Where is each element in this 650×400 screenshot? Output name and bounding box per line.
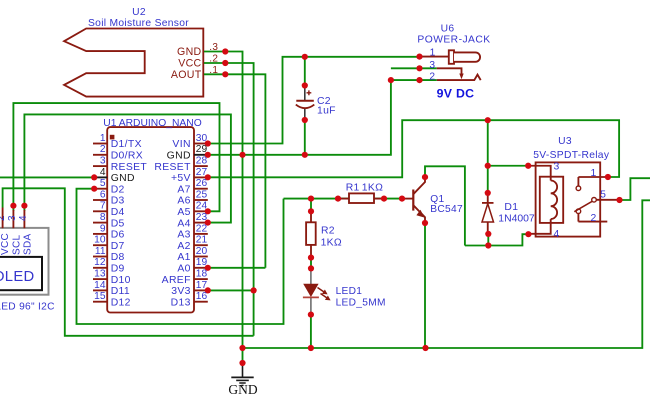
svg-text:U1 ARDUINO_NANO: U1 ARDUINO_NANO bbox=[103, 118, 201, 129]
svg-text:A0: A0 bbox=[177, 264, 190, 275]
svg-text:VCC: VCC bbox=[0, 233, 11, 255]
svg-text:5: 5 bbox=[100, 178, 106, 189]
svg-text:25: 25 bbox=[196, 189, 208, 200]
svg-text:R2: R2 bbox=[321, 226, 335, 237]
svg-text:2: 2 bbox=[429, 72, 435, 83]
svg-text:GND: GND bbox=[167, 151, 191, 162]
svg-text:POWER-JACK: POWER-JACK bbox=[417, 35, 490, 46]
svg-text:1uF: 1uF bbox=[317, 106, 336, 117]
svg-text:29: 29 bbox=[196, 144, 208, 155]
svg-text:1: 1 bbox=[100, 133, 106, 144]
svg-text:GND: GND bbox=[111, 173, 135, 184]
svg-text:U3: U3 bbox=[558, 136, 572, 147]
svg-text:D2: D2 bbox=[111, 184, 125, 195]
svg-text:20: 20 bbox=[196, 246, 208, 257]
svg-text:24: 24 bbox=[196, 201, 208, 212]
svg-text:VCC: VCC bbox=[178, 58, 201, 70]
svg-text:9: 9 bbox=[100, 223, 106, 234]
svg-text:3: 3 bbox=[553, 162, 559, 173]
svg-text:VIN: VIN bbox=[172, 139, 190, 150]
svg-text:RESET: RESET bbox=[111, 162, 148, 173]
svg-text:15: 15 bbox=[94, 291, 106, 302]
svg-text:+5V: +5V bbox=[171, 173, 191, 184]
svg-text:13: 13 bbox=[94, 269, 106, 280]
svg-text:2: 2 bbox=[0, 215, 7, 221]
svg-text:A7: A7 bbox=[177, 184, 190, 195]
svg-text:9V DC: 9V DC bbox=[437, 86, 475, 100]
svg-text:30: 30 bbox=[196, 133, 208, 144]
svg-text:2: 2 bbox=[590, 213, 596, 224]
svg-text:6: 6 bbox=[100, 189, 106, 200]
svg-text:1KΩ: 1KΩ bbox=[321, 237, 342, 248]
svg-text:16: 16 bbox=[196, 291, 208, 302]
svg-text:D7: D7 bbox=[111, 241, 125, 252]
svg-text:U2: U2 bbox=[132, 7, 146, 18]
svg-text:D4: D4 bbox=[111, 207, 125, 218]
svg-text:1N4007: 1N4007 bbox=[498, 213, 535, 224]
svg-text:2: 2 bbox=[100, 144, 106, 155]
svg-text:A1: A1 bbox=[177, 252, 190, 263]
svg-text:D0/RX: D0/RX bbox=[111, 151, 143, 162]
svg-text:18: 18 bbox=[196, 269, 208, 280]
svg-text:AOUT: AOUT bbox=[171, 69, 202, 81]
svg-text:D12: D12 bbox=[111, 297, 131, 308]
svg-text:1KΩ: 1KΩ bbox=[362, 183, 383, 194]
svg-text:4: 4 bbox=[18, 215, 29, 221]
svg-text:A5: A5 bbox=[177, 207, 190, 218]
svg-text:D11: D11 bbox=[111, 286, 130, 297]
svg-text:LED1: LED1 bbox=[336, 286, 363, 297]
svg-text:BC547: BC547 bbox=[430, 204, 463, 215]
svg-text:21: 21 bbox=[196, 235, 208, 246]
svg-text:.2: .2 bbox=[209, 54, 218, 65]
svg-text:7: 7 bbox=[100, 201, 106, 212]
svg-text:U6: U6 bbox=[441, 24, 455, 35]
svg-text:D1/TX: D1/TX bbox=[111, 139, 142, 150]
svg-text:A3: A3 bbox=[177, 230, 190, 241]
svg-text:D6: D6 bbox=[111, 230, 125, 241]
svg-text:10: 10 bbox=[94, 235, 106, 246]
svg-text:3: 3 bbox=[100, 156, 106, 167]
svg-text:26: 26 bbox=[196, 178, 208, 189]
svg-text:A6: A6 bbox=[177, 196, 190, 207]
svg-text:D1: D1 bbox=[504, 202, 518, 213]
svg-text:.1: .1 bbox=[209, 65, 218, 76]
svg-text:3: 3 bbox=[7, 215, 18, 221]
svg-text:OLED 96" I2C: OLED 96" I2C bbox=[0, 302, 55, 313]
svg-text:LED_5MM: LED_5MM bbox=[336, 297, 386, 308]
svg-text:14: 14 bbox=[94, 280, 106, 291]
svg-text:Soil Moisture Sensor: Soil Moisture Sensor bbox=[88, 18, 189, 29]
svg-text:11: 11 bbox=[95, 246, 106, 257]
svg-text:D5: D5 bbox=[111, 218, 125, 229]
svg-text:R1: R1 bbox=[346, 183, 360, 194]
svg-text:4: 4 bbox=[553, 229, 559, 240]
svg-text:4: 4 bbox=[100, 167, 106, 178]
svg-text:SDA: SDA bbox=[23, 234, 34, 255]
svg-text:22: 22 bbox=[196, 223, 208, 234]
svg-text:5V-SPDT-Relay: 5V-SPDT-Relay bbox=[533, 150, 610, 161]
svg-text:8: 8 bbox=[100, 212, 106, 223]
svg-text:23: 23 bbox=[196, 212, 208, 223]
svg-text:1: 1 bbox=[430, 48, 436, 59]
svg-text:GND: GND bbox=[228, 382, 257, 397]
svg-text:3V3: 3V3 bbox=[171, 286, 191, 297]
svg-text:OLED: OLED bbox=[0, 269, 35, 285]
svg-text:D9: D9 bbox=[111, 264, 125, 275]
svg-text:GND: GND bbox=[177, 46, 201, 58]
svg-text:28: 28 bbox=[196, 156, 208, 167]
svg-text:D8: D8 bbox=[111, 252, 125, 263]
svg-text:3: 3 bbox=[429, 60, 435, 71]
svg-text:AREF: AREF bbox=[162, 275, 191, 286]
svg-text:27: 27 bbox=[196, 167, 208, 178]
svg-text:1: 1 bbox=[590, 168, 596, 179]
svg-text:A2: A2 bbox=[177, 241, 190, 252]
svg-text:5: 5 bbox=[600, 190, 606, 201]
svg-text:A4: A4 bbox=[177, 218, 190, 229]
svg-text:.3: .3 bbox=[209, 42, 218, 53]
svg-text:17: 17 bbox=[196, 280, 208, 291]
svg-text:12: 12 bbox=[94, 257, 106, 268]
svg-text:D10: D10 bbox=[111, 275, 131, 286]
svg-text:19: 19 bbox=[196, 257, 208, 268]
svg-text:SCL: SCL bbox=[11, 235, 22, 255]
svg-text:D3: D3 bbox=[111, 196, 125, 207]
svg-text:D13: D13 bbox=[171, 297, 191, 308]
svg-text:RESET: RESET bbox=[154, 162, 191, 173]
